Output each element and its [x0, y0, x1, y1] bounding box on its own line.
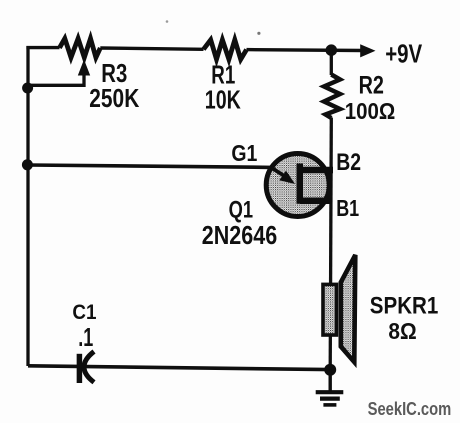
- svg-text:.1: .1: [78, 322, 93, 352]
- wire bottom horizontal: [28, 366, 330, 370]
- svg-text:R2: R2: [359, 72, 384, 100]
- transistor Q1 body circle: [266, 154, 329, 217]
- node junction dot G1/left wire: [22, 159, 33, 170]
- wire right vertical upper: [330, 50, 333, 75]
- wire top right: [247, 48, 363, 52]
- transistor Q1 emitter lead with arrow: [271, 167, 284, 175]
- speaker SPKR1 driver rectangle: [323, 284, 336, 335]
- resistor R1: [204, 40, 247, 60]
- svg-text:B2: B2: [336, 149, 361, 176]
- wire left vertical: [26, 46, 29, 366]
- svg-text:SPKR1: SPKR1: [370, 293, 439, 320]
- svg-text:+9V: +9V: [385, 38, 423, 68]
- R3 wiper arrowhead: [78, 60, 90, 76]
- speck above R1: [257, 32, 260, 35]
- speck top left: [166, 20, 169, 23]
- +9V supply arrow: [360, 44, 375, 57]
- svg-text:100Ω: 100Ω: [345, 98, 396, 124]
- wire R3 wiper branch horizontal: [28, 72, 84, 85]
- svg-text:SeekIC.com: SeekIC.com: [368, 398, 452, 419]
- wire top middle: [100, 48, 203, 49]
- node junction dot bottom right: [324, 364, 336, 376]
- svg-text:8Ω: 8Ω: [388, 318, 416, 344]
- node junction dot top right: [326, 44, 338, 56]
- wire G1 horizontal: [28, 165, 272, 167]
- wire right vertical lower: [330, 118, 331, 370]
- svg-text:C1: C1: [72, 300, 96, 324]
- svg-text:G1: G1: [231, 140, 257, 166]
- svg-text:10K: 10K: [205, 84, 241, 114]
- transistor Q1 base-one lead B1: [300, 197, 333, 204]
- resistor R2: [324, 75, 340, 119]
- node junction dot wiper/left wire: [22, 83, 33, 94]
- transistor Q1 base-two lead B2: [300, 167, 333, 174]
- svg-text:B1: B1: [336, 195, 359, 221]
- ground: [316, 370, 344, 405]
- svg-text:250K: 250K: [89, 83, 139, 113]
- capacitor C1 straight plate: [77, 354, 83, 383]
- speaker SPKR1 horn: [341, 255, 356, 362]
- svg-text:2N2646: 2N2646: [202, 220, 277, 250]
- capacitor C1 curved plate: [84, 352, 94, 383]
- transistor Q1 base bar: [297, 164, 304, 204]
- resistor R3 (potentiometer element): [60, 39, 101, 58]
- wire top-left horizontal: [26, 46, 59, 49]
